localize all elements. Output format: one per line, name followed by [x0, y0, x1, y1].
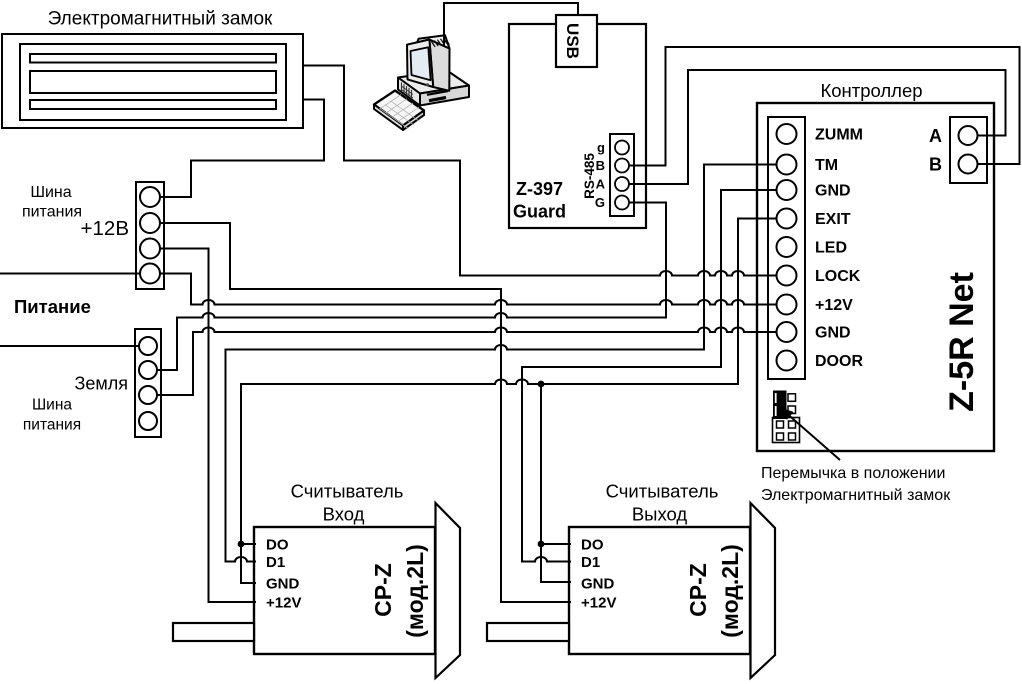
reader 2 flange: [751, 503, 776, 678]
label +12V bus: [81, 217, 129, 240]
svg-text:RS-485: RS-485: [582, 153, 597, 199]
svg-text:Вход: Вход: [323, 504, 365, 525]
label lock title: [48, 9, 273, 30]
wire reader 1 DO stub: [241, 543, 256, 545]
svg-text:GND: GND: [581, 576, 615, 593]
wire ground bus pin 2 to Z-397 G pin: [148, 203, 666, 371]
label Z-397 Guard: [513, 179, 566, 222]
svg-text:Выход: Выход: [632, 504, 688, 525]
wire +12V bus pin 2 to reader 2 +12V: [150, 223, 571, 602]
USB connector on Z-397: [556, 15, 597, 67]
svg-text:EXIT: EXIT: [815, 211, 851, 228]
svg-text:B: B: [596, 158, 605, 173]
svg-text:ZUMM: ZUMM: [815, 127, 863, 144]
svg-text:+12V: +12V: [581, 595, 616, 612]
label jumper note: [761, 465, 951, 504]
svg-text:Электромагнитный замок: Электромагнитный замок: [761, 487, 951, 504]
electromagnetic lock: [2, 34, 303, 128]
reader 2 cable bar: [487, 623, 569, 641]
RS-485 A/B connector on controller: [950, 117, 987, 183]
converter Z-397 Guard box: [509, 24, 646, 228]
wire lock to +12V bus pin 1: [150, 100, 324, 198]
wire computer to USB: [444, 3, 578, 46]
svg-text:+12V: +12V: [815, 297, 853, 314]
svg-text:Считыватель: Считыватель: [291, 481, 404, 502]
svg-text:Электромагнитный замок: Электромагнитный замок: [48, 9, 273, 30]
jumper block on controller: [773, 391, 800, 443]
label reader 1 CP-Z: [370, 544, 428, 638]
controller terminal strip: [768, 117, 805, 379]
wire ground supply input: [0, 345, 148, 347]
svg-text:DO: DO: [581, 537, 604, 554]
svg-text:A: A: [929, 126, 942, 146]
svg-text:Шина: Шина: [32, 397, 72, 414]
label Zemlya: [74, 374, 128, 394]
junction node EXIT line: [538, 381, 545, 388]
svg-text:Считыватель: Считыватель: [606, 481, 719, 502]
labels reader 2: [606, 481, 719, 525]
labels reader 1: [291, 481, 404, 525]
svg-text:Перемычка в положении: Перемычка в положении: [761, 465, 945, 482]
svg-text:питания: питания: [22, 204, 82, 221]
svg-text:TM: TM: [815, 157, 838, 174]
svg-text:питания: питания: [23, 417, 81, 434]
label RS-485: [582, 153, 597, 199]
svg-text:CP-Z: CP-Z: [370, 563, 396, 617]
svg-text:Z-397: Z-397: [516, 179, 563, 199]
wire TM terminal to reader 1 D1: [226, 165, 787, 562]
label Shina pitaniya top: [22, 184, 82, 221]
jumper arrow: [780, 407, 841, 460]
controller Z-5R Net box: [757, 103, 994, 451]
labels controller terminals: [815, 127, 863, 371]
label controller title: [820, 80, 922, 101]
wire lock to LOCK terminal: [303, 66, 786, 276]
svg-text:D1: D1: [266, 554, 285, 571]
computer icon: [374, 35, 469, 130]
wire +12V supply input: [0, 273, 150, 275]
wire +12V bus pin 4 to controller +12V terminal: [150, 274, 786, 305]
svg-text:CP-Z: CP-Z: [685, 563, 711, 617]
controller terminal circles: [777, 124, 797, 371]
label Pitanie: [14, 296, 91, 317]
svg-text:+12В: +12В: [81, 217, 129, 240]
svg-text:LED: LED: [815, 240, 847, 257]
reader 1 cable bar: [173, 623, 254, 641]
svg-text:Шина: Шина: [30, 184, 71, 201]
wire +12V bus pin 3 to reader 1 +12V: [150, 249, 256, 603]
svg-text:Земля: Земля: [74, 374, 128, 394]
reader 1 flange: [436, 503, 461, 678]
svg-text:B: B: [929, 155, 942, 175]
wire ground bus pin 3 to controller GND terminal: [148, 328, 786, 396]
+12V bus circles: [140, 187, 160, 284]
controller A/B circles: [959, 126, 978, 174]
+12V power bus connector: [136, 182, 164, 289]
RS-485 connector on Z-397: [610, 134, 634, 216]
svg-text:(мод.2L): (мод.2L): [717, 544, 743, 638]
reader 2 (exit) CP-Z box: [569, 527, 750, 654]
svg-text:GND: GND: [815, 183, 851, 200]
label USB: [563, 23, 582, 59]
svg-text:Guard: Guard: [513, 202, 566, 222]
svg-text:(мод.2L): (мод.2L): [402, 544, 428, 638]
ground bus circles: [139, 337, 157, 430]
junction node reader 1 DO: [238, 541, 245, 548]
svg-text:Питание: Питание: [14, 296, 91, 317]
svg-text:LOCK: LOCK: [815, 268, 861, 285]
ground power bus connector: [135, 329, 161, 437]
wire junction drop to reader 2 DO/GND: [541, 384, 571, 582]
svg-text:D1: D1: [581, 554, 600, 571]
wire RS-485 B to controller B: [622, 47, 1020, 166]
svg-text:A: A: [596, 177, 606, 192]
svg-text:+12V: +12V: [266, 595, 301, 612]
reader 1 (entry) CP-Z box: [254, 527, 435, 654]
wire RS-485 A to controller A: [622, 70, 1006, 184]
wire reader 2 DO stub: [541, 543, 571, 545]
RS-485 pin circles: [615, 141, 629, 210]
svg-text:DO: DO: [266, 537, 289, 554]
label reader 2 CP-Z: [685, 544, 743, 638]
svg-text:USB: USB: [563, 23, 582, 59]
svg-text:GND: GND: [815, 325, 851, 342]
wire GND terminal to reader 2 D1: [522, 190, 786, 562]
labels RS-485 pins: [595, 140, 606, 210]
svg-text:g: g: [597, 140, 605, 155]
label Z-5R Net: [943, 272, 981, 412]
wire EXIT terminal to reader 1 DO/GND: [241, 219, 786, 584]
svg-text:DOOR: DOOR: [815, 353, 863, 370]
junction node reader 2 DO: [538, 541, 545, 548]
svg-text:Контроллер: Контроллер: [820, 80, 922, 101]
svg-text:GND: GND: [266, 576, 300, 593]
labels controller A B: [929, 126, 942, 175]
label Shina pitaniya bottom: [23, 397, 81, 434]
svg-text:Z-5R Net: Z-5R Net: [943, 272, 981, 412]
